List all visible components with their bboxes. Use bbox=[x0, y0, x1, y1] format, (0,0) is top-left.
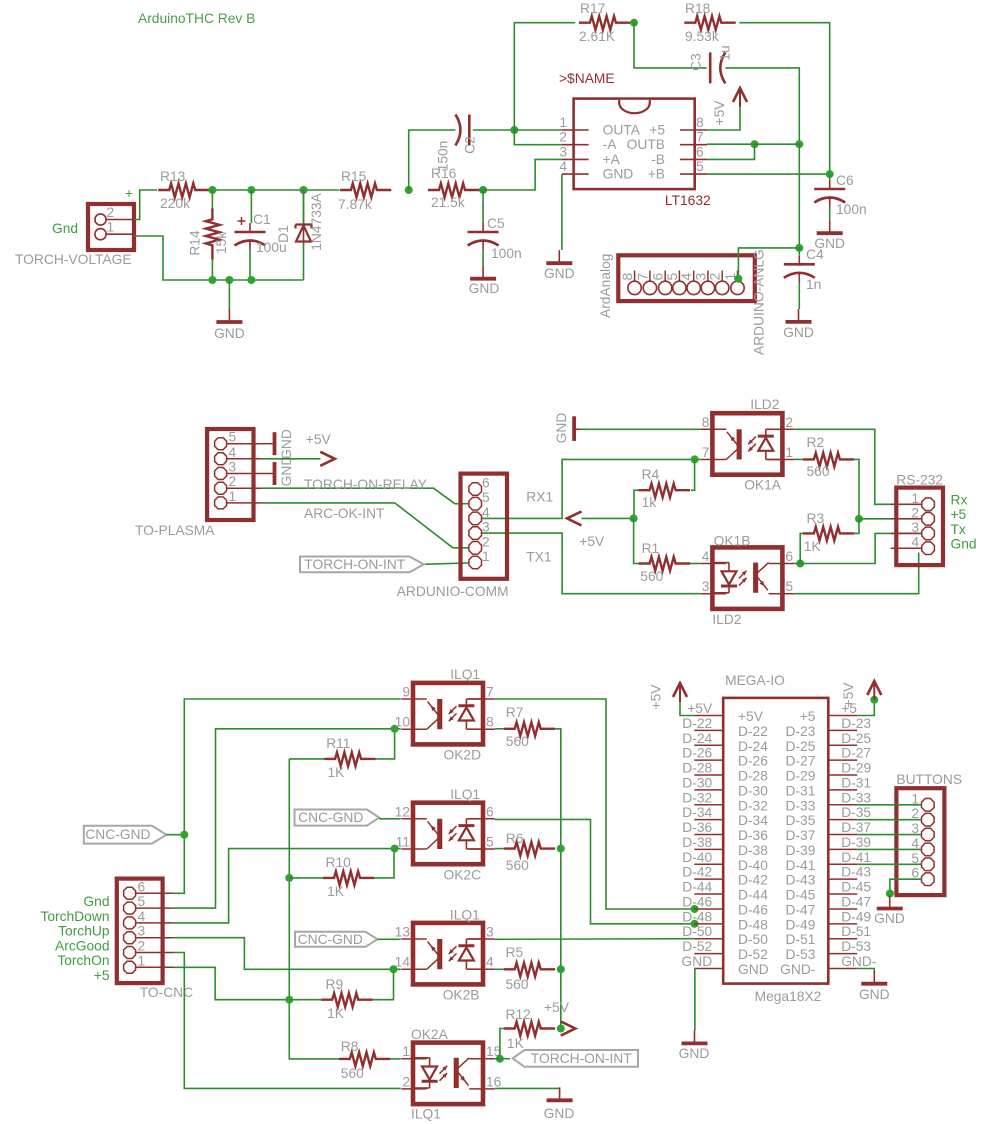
svg-text:D-48: D-48 bbox=[738, 917, 768, 932]
svg-text:+5: +5 bbox=[649, 123, 665, 138]
svg-text:GND: GND bbox=[682, 954, 713, 969]
wire TorchDown bbox=[174, 729, 401, 908]
wire C2 left leg bbox=[409, 130, 456, 190]
svg-text:+5V: +5V bbox=[841, 682, 856, 708]
svg-text:560: 560 bbox=[807, 464, 830, 479]
svg-text:TORCH-VOLTAGE: TORCH-VOLTAGE bbox=[15, 252, 132, 267]
svg-text:4: 4 bbox=[911, 535, 919, 550]
wire D-33 to button 1 bbox=[857, 804, 921, 806]
svg-text:D-41: D-41 bbox=[841, 850, 871, 865]
svg-text:CNC-GND: CNC-GND bbox=[298, 932, 363, 947]
svg-text:D-38: D-38 bbox=[682, 835, 712, 850]
supply +5V comm bbox=[567, 511, 582, 525]
ground GND divider bbox=[228, 309, 230, 322]
svg-text:8: 8 bbox=[696, 115, 704, 130]
svg-text:D-44: D-44 bbox=[682, 880, 712, 895]
svg-text:R4: R4 bbox=[642, 467, 660, 482]
svg-text:D-41: D-41 bbox=[785, 858, 815, 873]
svg-text:2: 2 bbox=[559, 130, 567, 145]
svg-text:R6: R6 bbox=[506, 831, 524, 846]
wire OK2D pin7 to D-46 bbox=[495, 699, 695, 909]
junction OK1B pin6 bbox=[796, 560, 804, 568]
svg-text:3: 3 bbox=[138, 924, 146, 939]
resistor R17 bbox=[579, 16, 630, 30]
svg-text:>$NAME: >$NAME bbox=[559, 71, 615, 86]
svg-text:ArcGood: ArcGood bbox=[55, 938, 109, 953]
wire R11 to pin10 bbox=[376, 729, 395, 759]
junction D-46 bbox=[691, 905, 699, 913]
svg-text:3: 3 bbox=[486, 925, 494, 940]
junction D-48 bbox=[691, 920, 699, 928]
junction R12 right bbox=[557, 1025, 565, 1033]
svg-text:R3: R3 bbox=[807, 511, 825, 526]
ground GND mega right bbox=[873, 971, 875, 984]
svg-text:Gnd: Gnd bbox=[52, 221, 78, 236]
svg-text:TORCH-ON-INT: TORCH-ON-INT bbox=[304, 557, 405, 572]
svg-text:ARDUNIO-COMM: ARDUNIO-COMM bbox=[397, 584, 509, 599]
svg-text:D-37: D-37 bbox=[785, 828, 815, 843]
wire opamp gnd bbox=[561, 174, 563, 250]
junction button gnd bbox=[886, 890, 894, 898]
svg-text:1u: 1u bbox=[718, 45, 733, 60]
optocoupler OK2B bbox=[413, 923, 483, 985]
svg-text:GND: GND bbox=[603, 167, 634, 182]
wire R1 to OK1B pin4 bbox=[690, 563, 701, 565]
svg-text:D-52: D-52 bbox=[738, 947, 768, 962]
svg-text:D-26: D-26 bbox=[738, 754, 768, 769]
svg-text:-B: -B bbox=[651, 152, 665, 167]
svg-text:6: 6 bbox=[486, 804, 494, 819]
resistor R4 bbox=[639, 484, 690, 498]
svg-text:D-36: D-36 bbox=[682, 820, 712, 835]
svg-text:D-50: D-50 bbox=[682, 924, 712, 939]
svg-text:MEGA-IO: MEGA-IO bbox=[725, 673, 785, 688]
svg-text:1K: 1K bbox=[327, 884, 345, 899]
wire divider bottom bbox=[134, 236, 304, 280]
svg-text:6: 6 bbox=[785, 549, 793, 564]
ground GND plasma3 bbox=[262, 473, 275, 475]
svg-text:ILQ1: ILQ1 bbox=[450, 787, 480, 802]
capacitor C3 bbox=[709, 52, 712, 83]
resistor R15 bbox=[340, 183, 391, 197]
svg-text:220k: 220k bbox=[160, 196, 190, 211]
junction OUTB-jog bbox=[751, 140, 759, 148]
svg-text:D-37: D-37 bbox=[841, 820, 871, 835]
svg-text:1n: 1n bbox=[806, 277, 821, 292]
svg-text:D-35: D-35 bbox=[841, 805, 871, 820]
wire jog down bbox=[707, 144, 755, 159]
svg-text:6: 6 bbox=[651, 273, 666, 281]
svg-text:D-24: D-24 bbox=[738, 739, 768, 754]
wire flag3 to pin13 bbox=[378, 938, 401, 940]
wire OUTB jog to -B bbox=[707, 143, 755, 145]
svg-text:+5: +5 bbox=[951, 507, 967, 522]
svg-text:ILQ1: ILQ1 bbox=[450, 667, 480, 682]
svg-text:560: 560 bbox=[506, 858, 529, 873]
junction C1 top bbox=[247, 186, 255, 194]
svg-text:TorchUp: TorchUp bbox=[58, 924, 110, 939]
svg-text:TORCH-ON-INT: TORCH-ON-INT bbox=[531, 1051, 632, 1066]
svg-text:D-22: D-22 bbox=[738, 724, 768, 739]
wire top loop left bbox=[514, 23, 575, 130]
svg-text:100n: 100n bbox=[491, 246, 522, 261]
svg-text:6: 6 bbox=[482, 476, 490, 491]
wire OK2B pin3 to D-50 bbox=[495, 938, 695, 941]
svg-text:D-24: D-24 bbox=[682, 731, 712, 746]
junction R10 left bbox=[285, 874, 293, 882]
svg-text:5: 5 bbox=[138, 894, 146, 909]
svg-text:D-43: D-43 bbox=[841, 865, 871, 880]
svg-text:D-26: D-26 bbox=[682, 746, 712, 761]
svg-text:7.87k: 7.87k bbox=[338, 197, 372, 212]
wire flag1 to node bbox=[166, 834, 184, 836]
svg-text:D-49: D-49 bbox=[841, 909, 871, 924]
svg-text:D1: D1 bbox=[276, 225, 291, 243]
flag CNC-GND 2 bbox=[295, 810, 380, 826]
resistor R6 bbox=[504, 842, 555, 856]
svg-text:5: 5 bbox=[785, 579, 793, 594]
svg-text:1: 1 bbox=[229, 489, 237, 504]
connector ARDUNIO-COMM bbox=[461, 474, 508, 579]
svg-text:D-28: D-28 bbox=[738, 769, 768, 784]
supply +5V r12 bbox=[561, 1022, 576, 1036]
junction RS232 +5 bbox=[855, 515, 863, 523]
junction OK2A pin15 bbox=[496, 1055, 504, 1063]
svg-text:560: 560 bbox=[506, 977, 529, 992]
svg-text:D-27: D-27 bbox=[785, 754, 815, 769]
flag TORCH-ON-INT 2 bbox=[513, 1050, 638, 1067]
svg-text:D-36: D-36 bbox=[738, 828, 768, 843]
wire OK1B pin6 to Tx bbox=[794, 563, 800, 565]
wire D-35 to button 2 bbox=[857, 819, 921, 821]
flag CNC-GND 1 bbox=[84, 826, 167, 844]
svg-text:D-39: D-39 bbox=[841, 835, 871, 850]
svg-text:D-45: D-45 bbox=[785, 888, 815, 903]
wire D-39 to button 4 bbox=[857, 848, 921, 850]
svg-text:D-44: D-44 bbox=[738, 888, 768, 903]
svg-text:1: 1 bbox=[911, 491, 919, 506]
wire +5 node to pin2 bbox=[859, 518, 922, 520]
svg-text:D-45: D-45 bbox=[841, 880, 871, 895]
wire R14 top stub bbox=[211, 190, 213, 208]
svg-text:R5: R5 bbox=[506, 945, 524, 960]
ground GND ok1a bbox=[572, 416, 576, 441]
svg-text:OK2B: OK2B bbox=[443, 988, 480, 1003]
svg-text:4: 4 bbox=[486, 955, 494, 970]
wire R14 bottom stub bbox=[211, 260, 213, 280]
svg-text:OK2D: OK2D bbox=[444, 748, 482, 763]
junction D1 top bbox=[300, 186, 308, 194]
svg-text:+5V: +5V bbox=[712, 100, 727, 126]
svg-text:D-29: D-29 bbox=[841, 761, 871, 776]
svg-text:D-27: D-27 bbox=[841, 746, 871, 761]
svg-text:3: 3 bbox=[482, 520, 490, 535]
svg-text:+5V: +5V bbox=[579, 534, 605, 549]
svg-text:R14: R14 bbox=[188, 230, 203, 256]
svg-text:TorchDown: TorchDown bbox=[40, 909, 109, 924]
svg-text:C6: C6 bbox=[836, 173, 854, 188]
svg-text:2: 2 bbox=[911, 505, 919, 520]
junction cnc-gnd bbox=[180, 831, 188, 839]
svg-text:Rx: Rx bbox=[951, 493, 968, 508]
wire TORCH-ON-RELAY bbox=[262, 488, 481, 504]
svg-text:D-23: D-23 bbox=[785, 724, 815, 739]
svg-text:RS-232: RS-232 bbox=[896, 473, 943, 488]
svg-text:D-46: D-46 bbox=[682, 894, 712, 909]
junction ArdAnalog pin1 bbox=[734, 275, 742, 283]
svg-text:R2: R2 bbox=[807, 435, 825, 450]
junction mega +5 right bbox=[870, 696, 878, 704]
junction R6 right bbox=[557, 845, 565, 853]
svg-text:D-31: D-31 bbox=[785, 783, 815, 798]
svg-text:GND: GND bbox=[874, 911, 905, 926]
wire mega +5 right bbox=[857, 700, 874, 716]
svg-text:Gnd: Gnd bbox=[951, 537, 977, 552]
svg-text:C1: C1 bbox=[253, 212, 271, 227]
svg-text:GND: GND bbox=[679, 1046, 710, 1061]
svg-text:16: 16 bbox=[486, 1074, 502, 1089]
svg-text:150n: 150n bbox=[436, 141, 451, 172]
svg-text:+5V: +5V bbox=[544, 1000, 570, 1015]
op-amp U1 LT1632 bbox=[574, 99, 695, 190]
wire mega +5v left bbox=[680, 702, 694, 716]
svg-text:5: 5 bbox=[486, 835, 494, 850]
wire OK2C pin5 to R6 bbox=[495, 848, 504, 850]
svg-text:D-52: D-52 bbox=[682, 939, 712, 954]
supply +5V mega right bbox=[867, 681, 881, 695]
svg-text:OK1B: OK1B bbox=[714, 534, 751, 549]
wire OK1B pin5 to Gnd bbox=[794, 553, 919, 594]
svg-text:GND: GND bbox=[859, 987, 890, 1002]
junction OK2C pin11 bbox=[391, 845, 399, 853]
wire OK2C pin6 to D-48 bbox=[495, 819, 695, 923]
svg-text:D-35: D-35 bbox=[785, 813, 815, 828]
wire ArcGood bbox=[174, 938, 401, 970]
svg-text:D-42: D-42 bbox=[738, 873, 768, 888]
svg-text:C2: C2 bbox=[462, 136, 477, 154]
wire C3 right leg bbox=[725, 68, 799, 144]
wire OK2A pin16 gnd bbox=[495, 1087, 560, 1090]
svg-text:D-49: D-49 bbox=[785, 917, 815, 932]
wire R1 left leg bbox=[634, 518, 639, 563]
wire gnd to OK1A pin8 bbox=[580, 428, 701, 430]
svg-text:TO-CNC: TO-CNC bbox=[140, 985, 193, 1000]
svg-text:R15: R15 bbox=[341, 169, 367, 184]
junction C1 bottom bbox=[247, 276, 255, 284]
optocoupler OK2A bbox=[413, 1043, 483, 1105]
svg-text:D-34: D-34 bbox=[738, 813, 768, 828]
wire R2 to +5 node bbox=[854, 459, 859, 518]
connector X1 TORCH-VOLTAGE bbox=[88, 204, 134, 250]
connector BUTTONS bbox=[896, 788, 944, 895]
svg-text:GND: GND bbox=[544, 1106, 575, 1121]
junction OUTA node bbox=[510, 126, 518, 134]
svg-text:12: 12 bbox=[395, 804, 410, 819]
ground GND opamp bbox=[558, 250, 560, 263]
svg-text:+5V: +5V bbox=[306, 432, 332, 447]
wire OUTB node right bbox=[755, 143, 800, 145]
svg-text:2: 2 bbox=[482, 534, 490, 549]
junction R17/R18 bbox=[630, 19, 638, 27]
wire plasma +5v bbox=[262, 458, 321, 460]
svg-text:100n: 100n bbox=[836, 202, 867, 217]
svg-text:+: + bbox=[125, 186, 133, 201]
svg-text:OUTB: OUTB bbox=[627, 137, 665, 152]
wire R18 to +B corner bbox=[707, 23, 830, 174]
wire C6 to gnd bbox=[829, 206, 831, 220]
svg-text:8: 8 bbox=[702, 415, 710, 430]
optocoupler OK2D bbox=[413, 683, 483, 745]
wire R9 to pin14 bbox=[373, 969, 394, 999]
svg-text:GND: GND bbox=[554, 413, 569, 444]
svg-text:ILQ1: ILQ1 bbox=[450, 908, 480, 923]
wire mega gnd right bbox=[857, 969, 874, 972]
svg-text:1K: 1K bbox=[328, 765, 346, 780]
svg-text:C5: C5 bbox=[487, 216, 505, 231]
wire button6 gnd bbox=[890, 879, 922, 895]
svg-text:ARC-OK-INT: ARC-OK-INT bbox=[304, 506, 385, 521]
wire C4 node to pin1 bbox=[738, 248, 799, 279]
svg-text:D-47: D-47 bbox=[841, 894, 871, 909]
svg-text:D-29: D-29 bbox=[785, 769, 815, 784]
svg-text:9: 9 bbox=[402, 685, 410, 700]
connector ArdAnalog bbox=[618, 255, 755, 301]
svg-text:3: 3 bbox=[911, 520, 919, 535]
wire C5 to gnd bbox=[482, 249, 484, 266]
wire Tx bbox=[800, 533, 922, 563]
svg-text:GND: GND bbox=[738, 962, 769, 977]
resistor R10 bbox=[323, 871, 374, 885]
svg-text:Tx: Tx bbox=[951, 522, 966, 537]
ground GND buttons bbox=[889, 896, 891, 909]
svg-text:2.61K: 2.61K bbox=[579, 29, 616, 44]
junction R14 bottom bbox=[208, 276, 216, 284]
svg-text:4: 4 bbox=[679, 273, 694, 281]
optocoupler OK1B bbox=[712, 547, 782, 609]
connector TO-CNC bbox=[117, 879, 163, 984]
wire +5 riser bbox=[289, 759, 339, 1059]
svg-text:+B: +B bbox=[648, 167, 665, 182]
wire C1 bottom stub bbox=[249, 249, 251, 280]
svg-text:7: 7 bbox=[702, 445, 710, 460]
svg-text:Gnd: Gnd bbox=[83, 894, 109, 909]
svg-text:5: 5 bbox=[665, 273, 680, 281]
capacitor C6 bbox=[829, 180, 831, 189]
svg-text:D-30: D-30 bbox=[738, 783, 768, 798]
wire R4 up leg bbox=[691, 459, 695, 490]
svg-text:D-51: D-51 bbox=[841, 924, 871, 939]
svg-text:D-34: D-34 bbox=[682, 805, 712, 820]
wire R12 left leg bbox=[500, 1029, 504, 1059]
svg-text:ARDUINO-ANLG: ARDUINO-ANLG bbox=[752, 249, 767, 355]
ground GND C6 bbox=[829, 220, 831, 233]
svg-text:TO-PLASMA: TO-PLASMA bbox=[135, 523, 215, 538]
svg-text:4: 4 bbox=[702, 549, 710, 564]
svg-text:3: 3 bbox=[702, 579, 710, 594]
ground GND ok2a bbox=[559, 1087, 561, 1100]
wire R4 left leg bbox=[634, 490, 639, 518]
resistor R11 bbox=[324, 752, 375, 766]
svg-text:D-42: D-42 bbox=[682, 865, 712, 880]
wire OUTA to -A feedback bbox=[514, 130, 562, 145]
svg-text:D-33: D-33 bbox=[841, 790, 871, 805]
svg-text:D-46: D-46 bbox=[738, 902, 768, 917]
svg-text:4: 4 bbox=[229, 445, 237, 460]
wire R3 left leg bbox=[800, 533, 804, 563]
optocoupler OK1A bbox=[712, 413, 782, 475]
svg-text:1: 1 bbox=[402, 1044, 410, 1059]
resistor R1 bbox=[639, 557, 690, 571]
resistor R2 bbox=[803, 453, 854, 467]
svg-text:+5V: +5V bbox=[649, 684, 664, 710]
wire node to pin1 bbox=[514, 129, 562, 131]
svg-text:2: 2 bbox=[229, 474, 237, 489]
ground GND C5 bbox=[482, 266, 484, 279]
wire R16 to opamp +A bbox=[479, 159, 562, 190]
svg-text:R12: R12 bbox=[506, 1007, 531, 1022]
svg-text:7: 7 bbox=[635, 273, 650, 281]
resistor R8 bbox=[339, 1052, 390, 1066]
svg-text:1: 1 bbox=[559, 115, 567, 130]
svg-text:560: 560 bbox=[506, 734, 529, 749]
svg-text:GND: GND bbox=[469, 281, 500, 296]
junction GND stem bbox=[225, 276, 233, 284]
svg-text:2: 2 bbox=[402, 1074, 410, 1089]
junction C4 node bbox=[795, 244, 803, 252]
svg-text:2: 2 bbox=[107, 205, 115, 220]
svg-text:7: 7 bbox=[486, 685, 494, 700]
svg-text:3: 3 bbox=[559, 144, 567, 159]
wire C3 left leg bbox=[634, 23, 707, 68]
svg-text:C4: C4 bbox=[806, 247, 824, 262]
svg-text:R18: R18 bbox=[685, 1, 711, 16]
wire OK1A pin1 to R2 bbox=[794, 458, 804, 460]
svg-text:D-51: D-51 bbox=[785, 932, 815, 947]
svg-text:+5V: +5V bbox=[687, 701, 713, 716]
wire D-37 to button 3 bbox=[857, 834, 921, 836]
svg-text:1: 1 bbox=[138, 953, 146, 968]
svg-text:D-30: D-30 bbox=[682, 775, 712, 790]
svg-text:4: 4 bbox=[482, 505, 490, 520]
svg-text:D-39: D-39 bbox=[785, 843, 815, 858]
resistor R12 bbox=[504, 1022, 555, 1036]
wire D1 top stub bbox=[303, 190, 305, 225]
wire torch-on-int to pin1 bbox=[424, 563, 482, 565]
wire C6 stem bbox=[829, 174, 831, 180]
svg-text:OK2C: OK2C bbox=[444, 867, 482, 882]
junction OK1A pin7 bbox=[691, 455, 699, 463]
wire R3 to +5 node bbox=[854, 519, 859, 534]
connector RS-232 bbox=[896, 488, 943, 565]
resistor R18 bbox=[684, 16, 735, 30]
supply +5V opamp bbox=[733, 88, 747, 102]
wire R11 left leg bbox=[289, 758, 324, 760]
wire C3 node down to C4 bbox=[798, 144, 800, 248]
svg-text:1K: 1K bbox=[804, 539, 822, 554]
junction R15/R16 node bbox=[405, 186, 413, 194]
svg-text:D-38: D-38 bbox=[738, 843, 768, 858]
wire RX1 bbox=[481, 459, 700, 518]
resistor R7 bbox=[504, 722, 555, 736]
wire C4 to gnd bbox=[798, 281, 800, 309]
svg-text:1K: 1K bbox=[507, 1036, 525, 1051]
wire TorchOn bbox=[174, 953, 401, 1089]
svg-text:2: 2 bbox=[785, 415, 793, 430]
svg-text:BUTTONS: BUTTONS bbox=[896, 772, 962, 787]
svg-text:7: 7 bbox=[696, 130, 704, 145]
svg-text:1: 1 bbox=[785, 445, 793, 460]
svg-text:D-32: D-32 bbox=[682, 790, 712, 805]
